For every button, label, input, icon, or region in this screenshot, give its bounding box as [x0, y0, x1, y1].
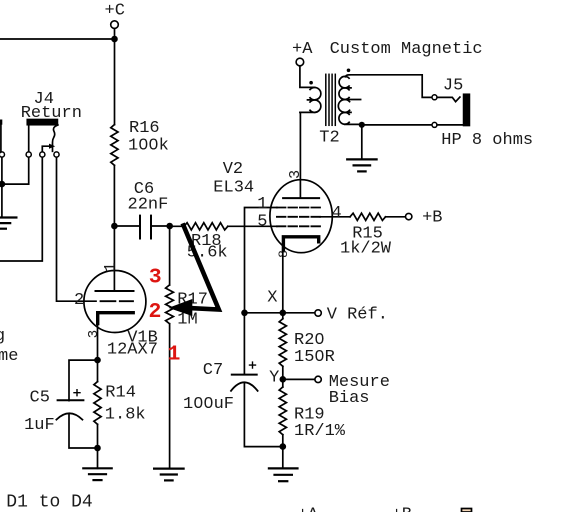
svg-text:R14: R14	[105, 384, 136, 403]
resistor R20	[282, 313, 284, 319]
V2 pin 1 wire	[245, 208, 277, 313]
wire J4 bar left lead	[28, 125, 30, 152]
ground J4	[0, 218, 16, 229]
svg-text:1.8k: 1.8k	[105, 406, 146, 425]
resistor R15	[350, 213, 386, 220]
svg-text:Y: Y	[269, 369, 279, 388]
svg-text:1: 1	[257, 195, 267, 214]
node Mesure Bias terminal	[315, 376, 321, 382]
J4 switch blade	[53, 125, 58, 151]
svg-text:EL34: EL34	[213, 178, 254, 197]
node C6 left junction	[111, 223, 118, 230]
node Y junction	[280, 376, 287, 383]
svg-text:22nF: 22nF	[128, 196, 169, 215]
svg-text:me: me	[0, 347, 18, 366]
wire junction to ground	[1, 184, 3, 217]
wire contact c down then left off-page	[0, 157, 42, 261]
svg-text:5: 5	[257, 212, 267, 231]
ground R14	[83, 468, 111, 480]
node T2 secondary bottom junction	[359, 122, 365, 128]
node R19 bottom junction	[280, 443, 287, 450]
V1B cathode lead	[97, 324, 99, 361]
wire to ground	[282, 447, 284, 469]
svg-text:1R/1%: 1R/1%	[294, 422, 346, 441]
T2 primary polarity dot	[309, 81, 313, 85]
node +B terminal	[406, 213, 412, 219]
resistor R19	[279, 387, 286, 435]
resistor R18	[184, 223, 228, 230]
V2 grid g2 dashes	[277, 216, 320, 218]
T2 core	[326, 74, 336, 125]
wire J5 sleeve to bar	[437, 124, 464, 126]
svg-text:12AX7: 12AX7	[107, 341, 158, 360]
svg-text:C5: C5	[30, 388, 50, 407]
V2 pin 4 wire to R15	[320, 216, 350, 218]
wire R15 to +B	[386, 216, 406, 218]
svg-text:+B: +B	[392, 506, 412, 512]
ground R19	[269, 468, 298, 481]
svg-text:V2: V2	[223, 160, 243, 179]
node V1B cathode junction	[94, 357, 101, 364]
ground R17	[154, 469, 184, 481]
V2 plate lead to transformer	[299, 112, 301, 198]
J5 switch blade	[437, 97, 460, 102]
svg-text:g: g	[0, 327, 5, 346]
wire contact d down to V1B grid	[57, 157, 97, 301]
svg-text:3: 3	[287, 170, 304, 179]
J4 contact circle pin c	[40, 152, 45, 157]
svg-text:Custom Magnetic: Custom Magnetic	[330, 40, 483, 59]
svg-text:1uF: 1uF	[24, 416, 55, 435]
J4 contact circle pin a	[0, 152, 4, 157]
svg-text:HP 8 ohms: HP 8 ohms	[441, 131, 533, 150]
V1B cathode	[98, 313, 134, 324]
V1B grid dashes	[101, 300, 134, 302]
wire contact b down and left to junction	[2, 157, 29, 184]
node +C junction	[111, 36, 118, 43]
wire to ground	[97, 448, 99, 468]
svg-text:3: 3	[149, 265, 162, 289]
svg-text:2: 2	[74, 291, 84, 310]
V2 cathode lead	[282, 251, 284, 313]
V2 grid g3 dashes	[277, 207, 320, 209]
wire left contact down to junction	[1, 157, 3, 184]
J5 jack bar	[464, 94, 470, 125]
node C6 right junction	[166, 223, 173, 230]
decorative masks (not labeled)	[142, 142, 145, 147]
svg-text:1: 1	[168, 343, 181, 367]
tube V1B envelope	[84, 271, 146, 333]
wire stub above left contact	[0, 120, 2, 125]
node V Ref terminal	[315, 310, 321, 316]
svg-text:+B: +B	[422, 209, 442, 228]
svg-text:2: 2	[149, 300, 162, 324]
T2 secondary winding	[345, 88, 362, 125]
J4 switch arrow	[42, 146, 50, 151]
cut-off red mark bottom	[462, 509, 472, 512]
J5 sleeve contact circle	[432, 122, 437, 127]
resistor R17	[166, 285, 174, 324]
svg-text:Bias: Bias	[329, 389, 370, 408]
wire +C rail to left edge	[0, 38, 115, 40]
wire C6 right junction down to R17	[169, 226, 171, 285]
wire C6 junction to R18	[170, 225, 184, 227]
svg-text:150R: 150R	[294, 348, 335, 367]
annotation arrow pointing to R17	[184, 226, 219, 310]
V2 grid g1 dashes	[277, 225, 320, 227]
resistor R14	[97, 360, 99, 382]
T2 primary winding	[300, 66, 315, 112]
J4 contact circle pin d	[54, 152, 59, 157]
J5 tip contact circle	[432, 95, 437, 100]
node R14 bottom junction	[94, 445, 101, 452]
svg-text:D1 to D4: D1 to D4	[6, 492, 92, 512]
J4 contact circle pin b	[26, 152, 31, 157]
svg-text:+A: +A	[298, 506, 319, 512]
svg-text:J5: J5	[443, 76, 463, 95]
svg-text:+A: +A	[292, 40, 313, 59]
wire +C terminal to junction	[114, 29, 116, 39]
wire T2 secondary top to J5	[350, 75, 433, 98]
wire C6 junction down to V1B plate	[113, 226, 115, 291]
V2 cathode	[283, 237, 318, 251]
node X right junction	[280, 310, 287, 317]
wire node X	[245, 312, 316, 314]
T2 secondary polarity dot	[347, 69, 351, 73]
wire +C junction down to R16	[114, 39, 116, 125]
V2 plate	[283, 197, 319, 199]
svg-text:X: X	[267, 288, 277, 307]
svg-text:T2: T2	[319, 129, 339, 148]
resistor R16	[111, 125, 118, 166]
wire R16 to C6 junction	[113, 165, 115, 226]
svg-text:4: 4	[332, 204, 342, 223]
svg-text:C7: C7	[203, 361, 223, 380]
tube V2 envelope	[270, 180, 332, 253]
J4 jack bar	[27, 120, 57, 125]
svg-text:1: 1	[102, 262, 120, 272]
svg-text:V Réf.: V Réf.	[327, 306, 388, 325]
wire junction to ground	[361, 125, 363, 160]
node J4 ground junction	[0, 181, 5, 188]
wire R18 to V2 grid pin 5	[228, 225, 277, 227]
svg-text:3: 3	[86, 330, 102, 338]
svg-text:+C: +C	[105, 2, 125, 21]
wire X to C7	[243, 313, 245, 375]
wire R17 down to ground	[169, 324, 171, 469]
wire C7 bottom to R19 bottom node	[244, 383, 282, 447]
wire Y to Mesure terminal	[283, 378, 315, 380]
wire cathode node to C5	[69, 360, 98, 401]
wire C5 bottom to R14 bottom node	[69, 414, 98, 449]
svg-text:1k/2W: 1k/2W	[340, 239, 392, 258]
ground T2	[347, 159, 376, 171]
node X left junction	[241, 310, 248, 317]
wire secondary bottom to J5	[362, 124, 432, 126]
V1B plate	[96, 290, 134, 292]
svg-text:100k: 100k	[128, 136, 169, 155]
